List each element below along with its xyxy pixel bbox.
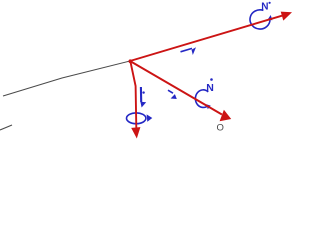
blue harpoon arrow 3 (below arrow 3) xyxy=(168,90,173,93)
circular arrow E2 around arrow 3 xyxy=(195,90,208,108)
red arrow 3 shaft (to lower right) xyxy=(130,61,222,115)
circular arrow E2 head xyxy=(206,104,210,109)
red arrow 1 head xyxy=(281,12,292,21)
circular arrow E1 head xyxy=(268,15,273,20)
charge mark above N2 xyxy=(210,78,213,81)
node: red vertex knot xyxy=(129,59,133,63)
blue harpoon arrow 2 (right of arrow 2) xyxy=(140,87,142,102)
circular arrow E3 head xyxy=(147,114,153,121)
red arrow 1 shaft (to upper right) xyxy=(130,16,282,61)
wire: black skeletal chain xyxy=(3,61,130,96)
svg-text:O: O xyxy=(217,123,224,134)
red arrow 2 head xyxy=(131,127,140,138)
red arrow 3 head xyxy=(220,110,232,122)
blue harpoon arrow 1 (below arrow 1) xyxy=(181,48,193,51)
wire: bottom-left corner fragment xyxy=(0,125,12,130)
red arrow 2 shaft (down) xyxy=(130,61,136,128)
circular arrow E1 around arrow 1 xyxy=(250,10,270,29)
circular arrow E3 around arrow 2 xyxy=(127,113,146,124)
svg-text:N: N xyxy=(261,2,268,13)
charge mark right of N1 xyxy=(269,2,271,4)
